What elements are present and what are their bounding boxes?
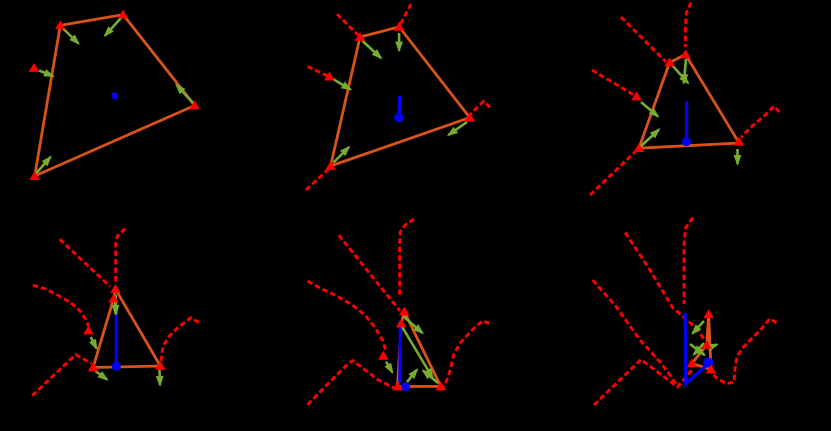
velocity arrow agent A2: [363, 41, 382, 58]
velocity arrow agent C1: [177, 85, 194, 104]
trajectory B4 dashed: [116, 229, 126, 284]
agent marker E2: [324, 72, 335, 81]
trajectory C4 dashed: [161, 318, 199, 361]
polygon edge D2-A2: [331, 37, 360, 166]
trajectory D3 dashed: [590, 152, 635, 195]
agent marker D3: [634, 143, 645, 152]
velocity arrow agent C3: [736, 149, 739, 164]
velocity arrow cluster A4/B4: [114, 295, 118, 314]
trajectory E6 dashed: [593, 280, 676, 384]
velocity arrow agent B1: [105, 18, 121, 36]
velocity arrow agent D4: [96, 371, 108, 380]
centroid dot panel 3: [682, 137, 691, 146]
agent marker D5: [392, 382, 403, 391]
centroid path panel 3: [685, 101, 688, 138]
trajectory A3 dashed: [621, 17, 666, 62]
agent marker A6: [702, 340, 713, 349]
velocity arrow agent B5: [404, 317, 423, 333]
trajectory B6 dashed: [684, 218, 693, 305]
trajectory C6 dashed: [712, 319, 777, 384]
velocity arrow agent A5: [402, 327, 433, 378]
polygon edge D1-A1: [35, 25, 61, 176]
velocity arrow agent E2: [333, 79, 351, 90]
velocity arrow agent A1: [62, 28, 79, 44]
velocity arrow agent D5: [407, 370, 417, 383]
trajectory E2 dashed: [308, 67, 328, 76]
velocity arrow agent D3: [640, 130, 659, 148]
centroid path panel 6: [685, 313, 707, 384]
polygon edge C2-D2: [331, 118, 470, 166]
trajectory B3 dashed: [685, 3, 691, 48]
centroid path panel 4: [115, 307, 118, 362]
velocity arrow agent C5: [423, 371, 438, 384]
trajectory A4 dashed: [60, 239, 110, 286]
trajectory B2 dashed: [401, 4, 412, 24]
trajectory A2 dashed: [337, 14, 358, 35]
agent marker A3: [664, 58, 675, 67]
polygon edge C1-D1: [35, 106, 195, 177]
velocity arrow agent E5: [386, 362, 392, 373]
agent marker D4: [88, 363, 99, 372]
agent marker A2: [355, 32, 366, 41]
agent marker B6: [703, 309, 714, 318]
polygon edge C6-B6: [709, 314, 711, 369]
agent marker B3: [680, 50, 691, 59]
velocity arrow agent B6: [693, 321, 705, 334]
velocity arrow agent D2: [334, 147, 350, 163]
velocity arrow agent C4: [158, 370, 161, 385]
trajectory E3 dashed: [592, 70, 633, 95]
agent marker E5: [378, 351, 389, 360]
centroid dot panel 1: [111, 92, 118, 99]
polygon edge B3-C3: [686, 55, 740, 144]
agent marker A5: [396, 319, 407, 328]
polygon edge B4-C4: [115, 289, 160, 366]
centroid dot panel 2: [394, 113, 403, 122]
polygon edge B2-C2: [399, 27, 470, 118]
velocity arrow agent E3: [641, 102, 658, 117]
agent marker A4: [108, 294, 119, 303]
polygon edge D6-C6: [692, 363, 711, 369]
polygon edge B6-A6: [707, 314, 709, 345]
centroid path panel 5: [398, 320, 402, 382]
trajectory C5 dashed: [443, 321, 490, 387]
polygon edge C4-D4: [93, 366, 160, 368]
agent marker E3: [631, 92, 642, 101]
polygon edge C3-D3: [639, 143, 739, 148]
agent marker D2: [325, 161, 336, 170]
velocity arrow agent E1: [39, 71, 53, 77]
trajectory A5 dashed: [339, 235, 400, 311]
trajectory A6 dashed: [625, 233, 705, 341]
trajectory E5 dashed: [308, 281, 386, 351]
agent marker C6: [706, 365, 717, 374]
agent marker B5: [399, 307, 410, 316]
velocity arrow agent B3: [684, 59, 686, 83]
polygon edge D4-A4: [93, 299, 114, 368]
polygon edge A2-B2: [360, 27, 399, 37]
agent marker C3: [734, 137, 745, 146]
polygon edge D3-A3: [639, 63, 670, 149]
velocity arrow agent C6: [708, 345, 717, 349]
velocity arrow agent A6: [694, 343, 704, 355]
trajectory E4 dashed: [33, 285, 89, 326]
agent marker B1: [118, 10, 129, 19]
centroid dot panel 6: [703, 358, 713, 368]
agent marker D1: [29, 171, 40, 180]
trajectory B5 dashed: [400, 219, 414, 297]
centroid dot panel 5: [401, 382, 410, 391]
velocity arrow agent D6: [690, 344, 705, 355]
trajectory C3 dashed: [741, 106, 780, 137]
agent marker C2: [465, 113, 476, 122]
trajectory D5 dashed: [308, 361, 394, 405]
polygon edge A6-D6: [692, 345, 707, 364]
polygon edge B1-C1: [123, 15, 195, 106]
agent marker E4: [83, 326, 94, 335]
velocity arrow agent E4: [91, 337, 97, 349]
trajectory D6 dashed: [594, 360, 692, 406]
trajectory D4 dashed: [32, 355, 91, 396]
polygon edge A5-B5: [401, 312, 404, 324]
agent marker A1: [55, 20, 66, 29]
velocity arrow agent A3: [672, 65, 688, 83]
agent marker C5: [436, 381, 447, 390]
polygon edge A3-B3: [670, 55, 686, 63]
polygon edge B5-C5: [404, 312, 441, 387]
trajectory C2 dashed: [470, 101, 491, 115]
velocity arrow agent B2: [398, 33, 401, 51]
agent marker B4: [110, 284, 121, 293]
velocity arrow agent C2: [449, 122, 468, 135]
agent marker E1: [29, 63, 40, 72]
agent marker C4: [155, 361, 166, 370]
polygon edge A1-B1: [60, 15, 123, 26]
agent marker C1: [189, 101, 200, 110]
centroid dot panel 4: [112, 362, 121, 371]
trajectory D2 dashed: [306, 170, 328, 191]
agent marker D6: [687, 358, 698, 367]
velocity arrow agent D1: [36, 157, 51, 174]
polygon edge C5-D5: [398, 385, 441, 388]
agent marker B2: [394, 22, 405, 31]
polygon edge D5-A5: [398, 324, 402, 387]
centroid path panel 2: [398, 96, 401, 114]
polygon edge A4-B4: [114, 289, 116, 299]
